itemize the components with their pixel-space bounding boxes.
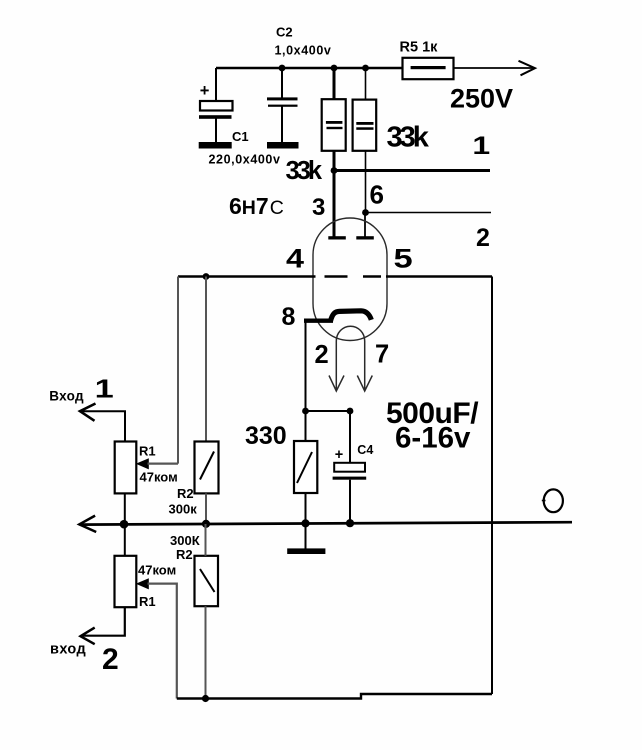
- wire input 1: [80, 411, 125, 441]
- svg-text:6-16v: 6-16v: [395, 422, 471, 455]
- label O: [544, 489, 563, 512]
- svg-text:1: 1: [95, 374, 114, 403]
- svg-text:1: 1: [472, 132, 490, 160]
- svg-text:47ком: 47ком: [140, 470, 178, 485]
- svg-text:6Н7С: 6Н7С: [229, 193, 284, 219]
- cathode: [331, 311, 372, 321]
- svg-text:47ком: 47ком: [138, 563, 176, 578]
- potentiometer R1 bottom: [115, 556, 177, 609]
- svg-text:8: 8: [282, 303, 296, 331]
- wire heater pin 7: [364, 341, 366, 390]
- arrow 0 bus left: [79, 516, 96, 532]
- svg-text:5: 5: [394, 243, 413, 273]
- svg-text:3: 3: [312, 194, 325, 221]
- svg-text:33k: 33k: [286, 157, 323, 185]
- svg-text:2: 2: [315, 341, 329, 369]
- wire anode left (pin 3): [333, 171, 336, 238]
- resistor 330 cathode: [245, 408, 317, 524]
- node R2 bottom on bottom bus: [202, 695, 209, 702]
- resistor R5 1k: [400, 40, 454, 80]
- anode plate left: [328, 236, 346, 239]
- svg-text:R1: R1: [139, 444, 156, 459]
- arrow input 1: [80, 404, 96, 421]
- svg-text:2: 2: [476, 224, 490, 252]
- node R1 top on 0 bus: [120, 520, 129, 529]
- resistor R2 bottom 300k: [170, 533, 218, 606]
- wire pin 8 horizontal: [304, 319, 333, 323]
- wire bottom bus: [177, 694, 492, 699]
- wire R2 bottom top lead: [205, 524, 207, 556]
- resistor R2 top 300k: [169, 442, 219, 517]
- arrow input 2: [81, 628, 95, 645]
- svg-text:2: 2: [102, 643, 119, 676]
- capacitor C1: [199, 68, 281, 167]
- wire top bus right of R5: [453, 67, 533, 69]
- capacitor C4: [333, 408, 374, 524]
- wire grid right: [386, 275, 492, 277]
- svg-text:R2: R2: [177, 486, 194, 501]
- wire input 2: [83, 607, 125, 636]
- wire right vertical: [491, 277, 493, 695]
- svg-text:R2: R2: [176, 547, 193, 562]
- wire R2 bottom bottom lead: [205, 606, 207, 698]
- wire pin 8 vertical to cathode node: [305, 321, 307, 411]
- resistor 33k left (anode load): [286, 65, 346, 185]
- heater filament arc: [336, 326, 364, 341]
- svg-text:7: 7: [375, 341, 389, 369]
- svg-text:4: 4: [286, 244, 305, 274]
- node C4 on 0 bus: [346, 519, 354, 527]
- grid dashed line: [325, 275, 348, 277]
- wire R2 top vertical: [205, 277, 207, 442]
- svg-text:R5 1к: R5 1к: [400, 40, 439, 56]
- svg-text:300К: 300К: [170, 533, 200, 548]
- svg-text:33k: 33k: [387, 122, 430, 154]
- wire anode right (pin 6): [364, 213, 366, 238]
- wire output line 1: [334, 169, 490, 172]
- wire top bus left: [216, 67, 403, 70]
- wiper arrow R1 bottom: [136, 578, 149, 589]
- svg-text:вход: вход: [50, 642, 86, 658]
- wiper arrow R1 top: [136, 458, 149, 469]
- svg-text:6: 6: [370, 180, 384, 210]
- svg-text:330: 330: [245, 422, 287, 450]
- svg-text:220,0x400v: 220,0x400v: [209, 153, 281, 167]
- svg-text:+: +: [200, 82, 210, 100]
- resistor 33k right (anode load): [353, 65, 430, 213]
- wire R1 top bottom: [124, 493, 126, 524]
- potentiometer R1 top: [115, 442, 178, 494]
- node junction anode left / line 1: [331, 167, 338, 174]
- svg-text:Вход: Вход: [49, 389, 84, 404]
- node grid junction: [203, 273, 210, 280]
- ground: [305, 523, 307, 549]
- arrow 250V output: [519, 61, 536, 76]
- capacitor C2: [267, 25, 331, 149]
- svg-text:C4: C4: [357, 443, 373, 457]
- wire R2 top to bus: [205, 493, 207, 524]
- tube U1 envelope: [313, 218, 387, 341]
- svg-text:C1: C1: [232, 129, 249, 144]
- wire output line 2: [366, 212, 492, 214]
- svg-text:C2: C2: [276, 25, 293, 40]
- wire cathode node horizontal: [306, 410, 351, 412]
- wire heater pin 2: [335, 341, 337, 390]
- node 330 on 0 bus: [301, 519, 309, 527]
- wire wiper R1 top: [148, 463, 179, 465]
- wire 0 bus: [80, 522, 573, 524]
- svg-text:1,0x400v: 1,0x400v: [275, 44, 332, 58]
- svg-text:+: +: [335, 447, 343, 463]
- wire R1 bottom from bus: [124, 524, 126, 555]
- node junction anode right / line 2: [362, 209, 369, 216]
- anode plate right: [356, 236, 374, 239]
- svg-text:250V: 250V: [450, 84, 513, 114]
- wire grid left: [178, 275, 316, 277]
- svg-text:R1: R1: [139, 594, 156, 609]
- wire wiper net vertical: [177, 277, 179, 464]
- svg-text:300к: 300к: [169, 502, 198, 517]
- node R2 top on 0 bus: [202, 520, 210, 528]
